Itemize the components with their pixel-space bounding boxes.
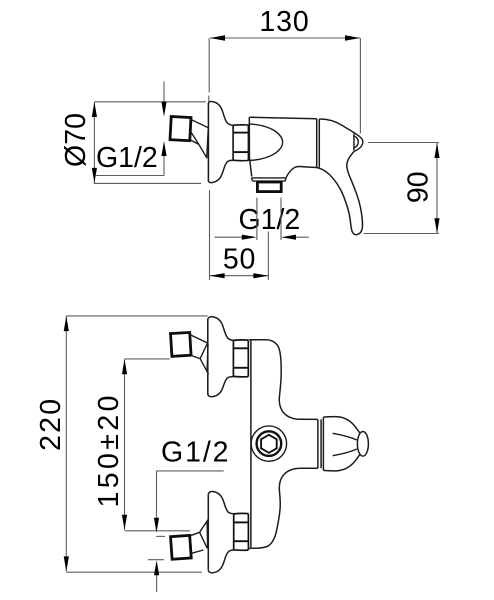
supply cone lower front view (190, 519, 208, 553)
extension line 220 top (66, 315, 207, 317)
arrowhead 50 left (210, 273, 225, 278)
extension line 150 top (125, 358, 170, 360)
hex nut side view (233, 125, 248, 161)
handle lever side view (317, 151, 363, 235)
svg-text:G1/2: G1/2 (161, 436, 230, 468)
shower nipple square side view (170, 116, 191, 140)
dimension line 90 (436, 143, 438, 233)
mixer body front view lower outline (248, 468, 317, 548)
hex nut upper front view (233, 340, 248, 377)
supply cone upper front view (190, 335, 208, 374)
svg-text:90: 90 (403, 171, 435, 203)
leader G1/2 front view (157, 471, 224, 519)
leader G1/2 lower arrow (96, 156, 164, 176)
mixer body front view left edge (250, 340, 252, 547)
arrowhead G1/2 up (156, 575, 158, 592)
extension line 220 bottom (66, 571, 202, 573)
arrowhead 50 right (253, 273, 268, 278)
extension lines outlet G1/2 (257, 198, 281, 240)
aerator middle ring front view (257, 431, 282, 456)
escutcheon lower front view (207, 495, 209, 570)
aerator outer circle front view (251, 426, 286, 461)
arrowhead 130 right (345, 35, 360, 40)
wall centerline dash top (208, 96, 210, 102)
svg-text:G1/2: G1/2 (96, 142, 158, 174)
body end dome side view (250, 124, 283, 161)
svg-text:150±20: 150±20 (93, 392, 125, 507)
arrowhead 150 top (122, 359, 127, 374)
arrowhead 220 top (64, 316, 69, 331)
aerator hexagon front view (261, 435, 277, 453)
dimension line 130 (210, 37, 360, 39)
arrowhead 130 left (210, 35, 225, 40)
handle nose side view (354, 134, 363, 152)
handle neck contours front view (333, 433, 357, 455)
supply nipple square upper front view (171, 332, 192, 356)
tick square top front view (156, 535, 165, 537)
extension line D70 bottom (94, 182, 201, 184)
svg-text:130: 130 (259, 6, 309, 38)
tick square bottom front view (148, 559, 164, 561)
svg-text:G1/2: G1/2 (239, 204, 301, 236)
arrowhead D70 bottom (92, 168, 97, 183)
extension line 130 right (359, 38, 361, 133)
extension line 50 left (209, 190, 211, 280)
mixer body side view (249, 117, 319, 176)
handle cap side view (319, 119, 360, 137)
arrowhead 90 top (434, 143, 439, 158)
dimension line 150 (124, 359, 126, 530)
escutcheon side view top shoulder (208, 101, 233, 125)
outlet flange side view (252, 168, 295, 182)
escutcheon side view bottom shoulder (208, 160, 233, 182)
shower nipple cone side view (190, 119, 208, 158)
joint rings front view (318, 419, 321, 468)
dimension line D70 (93, 102, 95, 183)
extension line 150 bottom (125, 530, 191, 532)
extension line D70 top (94, 101, 206, 103)
extension line 90 bottom (364, 233, 439, 235)
handle knob front view (357, 432, 368, 457)
handle cap front view (322, 417, 324, 470)
hex nut lower front view (234, 513, 249, 550)
arrowhead 90 bottom (434, 218, 439, 233)
svg-text:220: 220 (35, 397, 67, 451)
svg-text:50: 50 (223, 243, 256, 275)
extension line 130 left (208, 38, 210, 92)
leader G1/2 upper arrow (163, 82, 165, 103)
svg-text:Ø70: Ø70 (60, 113, 92, 167)
extension line 90 top (368, 142, 439, 144)
dimension arrows G1/2 outlet (215, 236, 310, 238)
arrowhead G1/2 leader down (154, 518, 159, 533)
supply nipple square lower front view (171, 535, 192, 559)
dimension line 50 (210, 275, 269, 277)
escutcheon upper front view (207, 319, 209, 394)
extension line 50 right outlet centerline (267, 232, 269, 281)
arrowhead D70 top (92, 102, 97, 117)
outlet connector side view (257, 182, 281, 192)
dimension line 220 (65, 316, 67, 571)
arrowhead 150 bottom (122, 515, 127, 530)
escutcheon side view left edge (207, 103, 209, 181)
mixer body front view upper outline (249, 340, 318, 420)
arrowhead 220 bottom (64, 556, 69, 571)
